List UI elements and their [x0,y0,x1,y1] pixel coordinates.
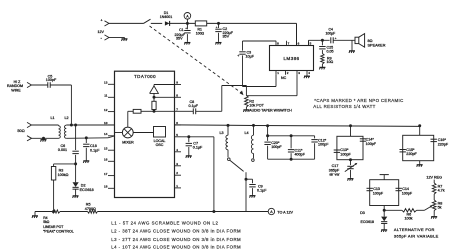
svg-text:L1 - 5T 24 AWG SCRAMBLE WOUN: L1 - 5T 24 AWG SCRAMBLE WOUND ON L2 [111,220,218,225]
svg-text:ALTERNATIVE FOR: ALTERNATIVE FOR [394,227,435,232]
svg-text:220pF: 220pF [438,142,449,146]
svg-text:R4: R4 [43,216,47,220]
svg-text:100pF: 100pF [340,152,351,156]
svg-text:+: + [237,54,239,58]
svg-text:35V: 35V [176,37,183,41]
svg-text:OSC: OSC [156,143,164,147]
svg-text:ECG618: ECG618 [361,220,374,224]
svg-text:16: 16 [104,158,108,162]
svg-text:L2: L2 [64,116,68,120]
svg-text:365pF AIR VARIABLE: 365pF AIR VARIABLE [394,234,439,239]
svg-text:MIXER: MIXER [122,141,134,145]
svg-text:ALL RESISTORS 1/4 WATT: ALL RESISTORS 1/4 WATT [313,104,375,109]
svg-text:18: 18 [104,185,108,189]
svg-text:14: 14 [104,132,108,136]
svg-text:1N4001: 1N4001 [160,15,173,19]
svg-text:L4 - 10T 24 AWG CLOSE WOUND O: L4 - 10T 24 AWG CLOSE WOUND ON 3/8 in DI… [111,244,241,249]
svg-text:100k: 100k [405,217,413,221]
svg-text:10k POT: 10k POT [249,104,264,108]
svg-text:0.1µF: 0.1µF [193,146,203,150]
svg-text:TDA7000: TDA7000 [134,74,156,79]
svg-text:5k: 5k [438,206,442,210]
svg-text:4700Ω: 4700Ω [85,207,96,211]
svg-text:L3: L3 [219,131,223,135]
svg-text:SPEAKER: SPEAKER [368,44,386,48]
svg-text:12V REG: 12V REG [426,175,442,179]
svg-text:100pF: 100pF [271,145,282,149]
svg-text:12V: 12V [98,30,105,34]
svg-text:air var: air var [329,173,340,177]
svg-text:+: + [101,19,103,23]
svg-text:100Ω: 100Ω [196,31,205,35]
svg-text:+: + [216,25,218,29]
svg-text:17: 17 [104,172,108,176]
svg-text:L2 - 38T 24 AWG CLOSE WOUND O: L2 - 38T 24 AWG CLOSE WOUND ON 3/8 in DI… [111,229,241,234]
svg-text:35V: 35V [223,35,230,39]
svg-text:400pF: 400pF [295,153,306,157]
svg-text:0.001: 0.001 [58,148,67,152]
svg-text:+: + [335,36,337,40]
svg-text:11: 11 [104,94,107,98]
svg-text:L1: L1 [50,116,54,120]
svg-text:*CAPS MARKED * ARE NPO CERAMIC: *CAPS MARKED * ARE NPO CERAMIC [314,98,403,103]
svg-text:C1: C1 [179,28,184,32]
svg-text:15: 15 [104,146,108,150]
svg-text:12: 12 [104,108,108,112]
svg-text:0.1µF: 0.1µF [189,104,199,108]
svg-text:100pF: 100pF [318,143,329,147]
svg-text:4.7k: 4.7k [438,189,445,193]
svg-text:100µF: 100µF [326,32,336,36]
svg-text:8Ω: 8Ω [368,39,373,43]
svg-text:+: + [185,26,187,30]
svg-text:L4: L4 [244,131,248,135]
svg-text:100kΩ: 100kΩ [58,173,69,177]
svg-text:NC: NC [281,76,287,80]
svg-text:100pF: 100pF [366,142,377,146]
svg-text:100pF: 100pF [373,192,384,196]
svg-text:50Ω: 50Ω [17,128,24,133]
svg-text:WIRE: WIRE [11,88,21,92]
svg-text:R3: R3 [59,168,64,172]
svg-text:0.05: 0.05 [327,49,334,53]
svg-text:10Ω: 10Ω [327,60,334,64]
svg-text:LM386: LM386 [283,56,299,61]
svg-text:“PEAK” CONTROL: “PEAK” CONTROL [43,229,74,233]
svg-text:ECG618: ECG618 [80,188,94,192]
svg-text:5kΩ: 5kΩ [43,220,50,224]
svg-text:13: 13 [104,81,108,85]
svg-text:0.1µF: 0.1µF [257,189,267,193]
svg-text:100pF: 100pF [46,78,57,82]
svg-text:TO A 12V: TO A 12V [277,211,293,215]
svg-text:L3 - 27T 24 AWG CLOSE WOUND O: L3 - 27T 24 AWG CLOSE WOUND ON 3/8 in DI… [111,237,241,242]
svg-text:D3: D3 [360,211,365,215]
svg-text:10µF: 10µF [246,55,255,59]
svg-text:0.1µF: 0.1µF [90,148,100,152]
svg-text:100pF: 100pF [402,192,413,196]
svg-text:AUDIO TAPER W/SWITCH: AUDIO TAPER W/SWITCH [249,108,292,112]
svg-text:220pF: 220pF [406,152,417,156]
svg-text:LINEAR POT: LINEAR POT [43,225,63,229]
